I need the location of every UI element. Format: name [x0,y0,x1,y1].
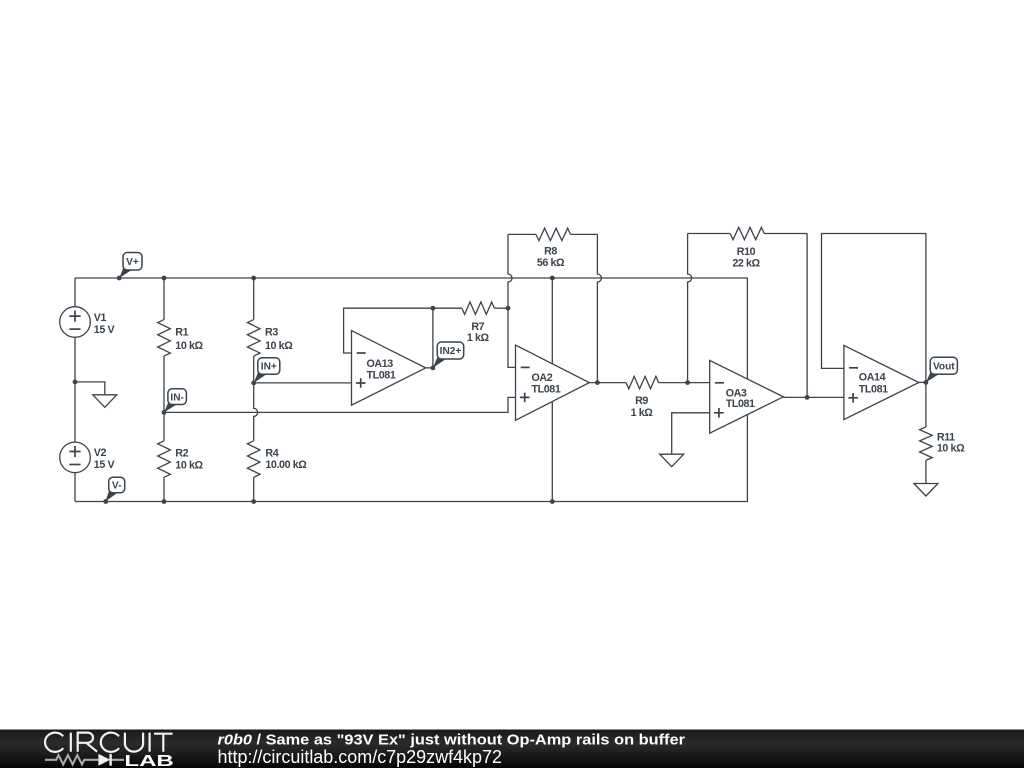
wire R8 loop left (hop over V+ rail) [508,234,516,367]
svg-text:R8: R8 [544,245,557,257]
svg-text:1 kΩ: 1 kΩ [631,407,654,419]
svg-text:Vout: Vout [933,361,955,372]
wire R9 to OA3 minus [659,382,710,384]
op-amp OA14 [844,345,919,419]
wire V- rail [75,415,747,502]
op-amp OA2 [516,345,590,420]
svg-text:IN2+: IN2+ [440,346,462,357]
svg-text:R2: R2 [175,447,188,459]
svg-text:15 V: 15 V [94,459,116,471]
wire OA3 output to OA14 plus [783,396,844,398]
voltage source V1 [60,307,116,338]
svg-text:R9: R9 [635,395,648,407]
svg-text:10 kΩ: 10 kΩ [175,340,203,352]
wire R8 top stubs [508,233,597,235]
svg-text:http://circuitlab.com/c7p29zwf: http://circuitlab.com/c7p29zwf4kp72 [218,747,503,767]
wire OA2 V- pin [551,402,553,502]
svg-text:V+: V+ [126,257,139,268]
resistor R1 [158,320,171,357]
ground G3 [914,484,938,497]
wire OA3 plus to ground [672,413,710,454]
wire OA2 V+ pin [551,278,553,364]
ground G1 [93,395,117,408]
wire R10 loop right [806,234,808,398]
voltage source V2 [60,442,116,473]
flag IN- [164,389,186,413]
svg-text:R1: R1 [175,327,188,339]
op-amp OA13 [352,331,426,406]
resistor R9 [626,376,659,388]
svg-text:V2: V2 [94,447,107,459]
op-amp OA3 [710,360,784,433]
svg-text:56 kΩ: 56 kΩ [537,257,565,269]
resistor R7 [462,302,495,314]
wire R10 top stubs [688,233,808,235]
resistor R11 [920,427,933,461]
wire R8 loop right (hop over V+ rail) [597,234,601,382]
svg-text:OA14: OA14 [859,372,886,384]
wire V1-V2 [74,337,76,442]
wire OA13 feedback [344,308,462,353]
svg-text:TL081: TL081 [859,383,888,395]
wire OA2 output [589,382,626,384]
svg-text:TL081: TL081 [532,384,561,396]
wire R4 stubs (hop over IN- wire) [254,383,258,502]
resistor R2 [158,441,171,478]
svg-text:10 kΩ: 10 kΩ [175,459,203,471]
ground G2 [660,454,684,467]
wire V2 bottom [74,473,76,502]
wire R2 stubs [163,412,165,501]
svg-text:R3: R3 [265,327,278,339]
flag IN2+ [433,342,464,368]
svg-text:10 kΩ: 10 kΩ [265,340,293,352]
resistor R3 [247,320,260,357]
footer bar [0,730,1024,768]
svg-text:TL081: TL081 [726,398,755,410]
resistor R8 [536,228,571,240]
wire R1 stubs [163,278,165,412]
resistor R4 [247,441,260,478]
wire R3 stubs [253,278,255,383]
wire OA14 feedback loop [822,234,926,383]
resistor R10 [730,227,764,239]
wire V1 top [74,278,76,307]
wire R10 loop left (hop over V+ rail) [688,234,692,383]
svg-text:TL081: TL081 [367,370,396,382]
logo squiggle resistor+diode [45,755,124,764]
svg-text:LAB: LAB [124,753,173,768]
svg-text:R10: R10 [737,246,756,258]
flag IN+ [254,358,280,383]
flag V- [105,477,125,501]
svg-text:V1: V1 [94,312,107,324]
svg-text:OA13: OA13 [367,358,394,370]
wire OA14 output stub [919,381,926,383]
wire V+ rail [75,278,747,379]
svg-text:15 V: 15 V [94,324,116,336]
svg-text:V-: V- [112,481,122,492]
flag Vout [926,357,958,382]
logo CIRCUIT [45,733,173,752]
wire R7 to R8 loop [494,307,508,309]
svg-text:22 kΩ: 22 kΩ [732,257,760,269]
flag V+ [119,253,142,279]
svg-text:IN+: IN+ [261,362,277,373]
svg-text:10.00 kΩ: 10.00 kΩ [265,459,307,471]
wire R11 stubs [925,382,927,483]
wire IN- net to OA2 plus input [164,397,516,412]
svg-text:IN-: IN- [170,392,183,403]
svg-text:OA2: OA2 [532,372,553,384]
svg-text:10 kΩ: 10 kΩ [937,443,965,455]
junction dots [117,276,122,281]
wire ground tap [75,382,105,395]
svg-text:1 kΩ: 1 kΩ [467,332,490,344]
svg-text:R4: R4 [265,447,278,459]
wire IN+ net to OA13 plus input [254,382,352,384]
wire OA13 output stub [426,308,433,368]
